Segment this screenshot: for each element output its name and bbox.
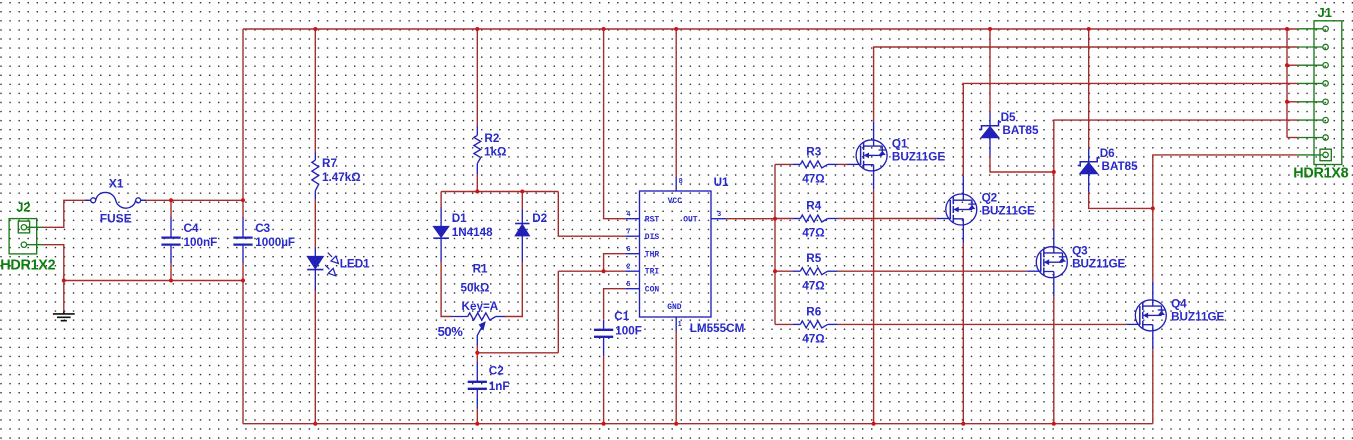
capacitor C3 <box>242 218 244 238</box>
wire J2 pin1 to fuse <box>43 200 88 227</box>
wire C3 node down to bottom rail <box>242 281 244 424</box>
svg-text:R2: R2 <box>484 132 499 145</box>
svg-text:BUZ11GE: BUZ11GE <box>1072 257 1125 270</box>
wire wiper row <box>477 352 558 354</box>
resistor R3 <box>800 161 827 168</box>
wire Q2 drain to J1 pin4 row <box>963 83 1297 175</box>
svg-text:LM555CM: LM555CM <box>690 322 745 335</box>
svg-text:BUZ11GE: BUZ11GE <box>892 151 945 164</box>
svg-text:FUSE: FUSE <box>100 211 132 225</box>
wire D6 anode to Q4 drain <box>1089 192 1153 209</box>
wire wiper stub <box>476 345 478 353</box>
wire bottom ground rail <box>243 423 1153 425</box>
svg-text:BAT85: BAT85 <box>1102 160 1139 173</box>
svg-text:100nF: 100nF <box>184 236 218 249</box>
svg-text:7: 7 <box>627 229 631 236</box>
svg-text:1nF: 1nF <box>489 380 510 393</box>
transistor Q1 <box>847 122 887 190</box>
svg-text:D5: D5 <box>1001 111 1016 124</box>
svg-text:X1: X1 <box>109 177 124 191</box>
wire ground rail C4 C3 <box>64 280 243 282</box>
svg-text:C2: C2 <box>489 364 504 377</box>
svg-text:47Ω: 47Ω <box>802 279 824 292</box>
svg-text:5: 5 <box>627 281 631 288</box>
svg-text:1: 1 <box>678 321 682 328</box>
wire R3 leads <box>775 163 793 165</box>
wire R7 bottom to LED1 top <box>314 199 316 248</box>
svg-text:C3: C3 <box>255 222 270 235</box>
wire Q2 source to bottom rail <box>962 243 964 423</box>
wire D5 cathode from VCC rail <box>989 29 991 113</box>
svg-text:D1: D1 <box>452 212 467 225</box>
svg-text:R1: R1 <box>473 263 488 276</box>
wire VCC top rail <box>243 28 1297 30</box>
svg-text:R5: R5 <box>806 252 821 265</box>
svg-text:LED1: LED1 <box>340 258 370 271</box>
svg-text:R3: R3 <box>806 145 821 158</box>
wire D2 branch down <box>521 192 523 210</box>
svg-text:1kΩ: 1kΩ <box>484 145 506 158</box>
svg-text:TRI: TRI <box>645 268 660 277</box>
svg-text:C1: C1 <box>614 310 629 323</box>
svg-text:BUZ11GE: BUZ11GE <box>982 205 1035 218</box>
wire J1 pin5 stub <box>1287 101 1297 103</box>
svg-text:1.47kΩ: 1.47kΩ <box>322 171 361 184</box>
svg-text:47Ω: 47Ω <box>802 173 824 186</box>
LED LED1 <box>314 248 316 257</box>
wire C4 top stub <box>170 200 172 218</box>
wire R7 top from VCC rail <box>314 29 316 153</box>
U1 pin leads <box>625 218 639 220</box>
capacitor C1 <box>603 320 605 330</box>
svg-text:Q2: Q2 <box>982 192 998 205</box>
wire J1 pin3 stub <box>1287 64 1297 66</box>
wire R2 top from VCC rail <box>476 29 478 125</box>
wire U1 pin8 to VCC rail <box>675 29 677 178</box>
wire R4 leads <box>775 218 793 220</box>
wire R5 leads <box>775 270 793 272</box>
potentiometer R1 <box>451 316 468 318</box>
wire C2 bottom to rail <box>476 408 478 424</box>
wire C2 top <box>476 353 478 362</box>
svg-text:GND: GND <box>667 303 682 312</box>
svg-text:HDR1X2: HDR1X2 <box>0 257 55 273</box>
wire THR stub <box>604 254 626 272</box>
wire D1 branch down <box>440 192 442 208</box>
svg-text:2: 2 <box>627 264 631 271</box>
svg-text:47Ω: 47Ω <box>802 227 824 240</box>
wire node row D1-D2-DIS <box>441 191 558 193</box>
svg-text:100F: 100F <box>615 324 642 337</box>
wire fuse output to C4/C3 node <box>141 199 243 201</box>
svg-text:OUT: OUT <box>683 216 698 225</box>
svg-text:Key=A: Key=A <box>462 300 499 313</box>
svg-text:R6: R6 <box>806 305 821 318</box>
wire Q1 source to bottom rail <box>873 189 875 424</box>
svg-text:1N4148: 1N4148 <box>452 226 493 239</box>
fuse X1 <box>85 199 91 201</box>
svg-text:BUZ11GE: BUZ11GE <box>1171 311 1224 324</box>
wire J2 pin2 to ground rail <box>43 245 63 281</box>
svg-text:Q4: Q4 <box>1171 298 1187 311</box>
wire TRI row <box>558 270 625 272</box>
svg-text:4: 4 <box>627 211 631 218</box>
svg-text:R7: R7 <box>322 157 337 170</box>
svg-text:U1: U1 <box>714 176 729 189</box>
wire OUT to resistor bank <box>726 218 775 220</box>
resistor R6 <box>800 321 827 328</box>
wire R2 bottom to node row <box>476 174 478 191</box>
resistor R4 <box>800 215 827 222</box>
wire Q3 drain to J1 pin6 row <box>1054 120 1298 228</box>
wire VCC drop to fuse output node <box>242 29 244 200</box>
wire Q3 source to bottom rail <box>1053 296 1055 424</box>
svg-text:C4: C4 <box>184 222 199 235</box>
diode D1 <box>440 207 442 226</box>
wire D6 cathode from VCC rail <box>1088 29 1090 149</box>
connector J1 <box>1314 21 1342 165</box>
svg-text:DIS: DIS <box>645 233 660 242</box>
svg-text:1000µF: 1000µF <box>255 236 295 249</box>
svg-text:D6: D6 <box>1100 147 1115 160</box>
diode D5 <box>989 113 991 126</box>
connector J2 <box>9 219 37 254</box>
wire Q4 source to bottom rail corner <box>1152 349 1154 424</box>
wire C4 bottom stub <box>170 263 172 281</box>
wire D1 cathode to R1 left <box>441 262 451 317</box>
svg-text:Q3: Q3 <box>1072 244 1088 257</box>
svg-text:VCC: VCC <box>668 197 683 206</box>
capacitor C2 <box>476 361 478 381</box>
svg-text:HDR1X8: HDR1X8 <box>1293 165 1348 181</box>
wire RST from VCC rail <box>604 29 626 219</box>
wire C3 top stub <box>242 200 244 218</box>
wire Q1 drain to J1 pin2 row <box>874 47 1298 122</box>
wire U1 pin1 to bottom rail <box>675 331 677 424</box>
wire D2 anode to R1 right <box>505 262 523 317</box>
svg-text:THR: THR <box>645 250 660 259</box>
svg-text:BAT85: BAT85 <box>1002 124 1039 137</box>
junction dots <box>313 27 317 31</box>
wire C1 bottom to rail <box>603 356 605 424</box>
resistor R2 <box>476 125 478 135</box>
wire CON to C1 <box>604 289 626 320</box>
svg-text:R4: R4 <box>806 199 821 212</box>
resistor R5 <box>800 268 827 275</box>
svg-text:47Ω: 47Ω <box>802 333 824 346</box>
svg-text:RST: RST <box>645 215 660 224</box>
transistor Q4 <box>1126 282 1166 350</box>
transistor Q3 <box>1027 228 1067 296</box>
diode D2 <box>521 209 523 223</box>
svg-text:Q1: Q1 <box>892 138 908 151</box>
wire D5 anode to Q3 drain <box>990 156 1054 173</box>
wire Q4 drain to J1 pin8 row <box>1153 155 1298 282</box>
svg-text:J2: J2 <box>16 200 30 215</box>
resistor R7 <box>314 153 316 161</box>
wire J1 bus vertical <box>1286 29 1288 138</box>
wire LED1 bottom to ground rail <box>314 290 316 424</box>
wire C3 bottom stub <box>242 263 244 281</box>
svg-text:50%: 50% <box>438 324 464 339</box>
capacitor C4 <box>170 218 172 238</box>
svg-text:8: 8 <box>679 178 683 185</box>
transistor Q2 <box>937 176 977 244</box>
svg-text:6: 6 <box>627 246 631 253</box>
wire resistor bank vertical <box>774 164 776 324</box>
wire TRI riser to wiper row <box>557 271 559 353</box>
svg-text:J1: J1 <box>1318 5 1332 20</box>
svg-text:50kΩ: 50kΩ <box>461 282 490 295</box>
svg-text:CON: CON <box>645 285 660 294</box>
svg-text:3: 3 <box>717 211 721 218</box>
diode D6 <box>1088 149 1090 162</box>
op-amp U1 box <box>640 191 712 317</box>
wire DIS riser <box>558 192 625 237</box>
wire R6 leads <box>775 323 793 325</box>
ground <box>63 281 65 312</box>
wire J1 pin7 stub <box>1287 137 1297 139</box>
svg-text:D2: D2 <box>532 212 547 225</box>
